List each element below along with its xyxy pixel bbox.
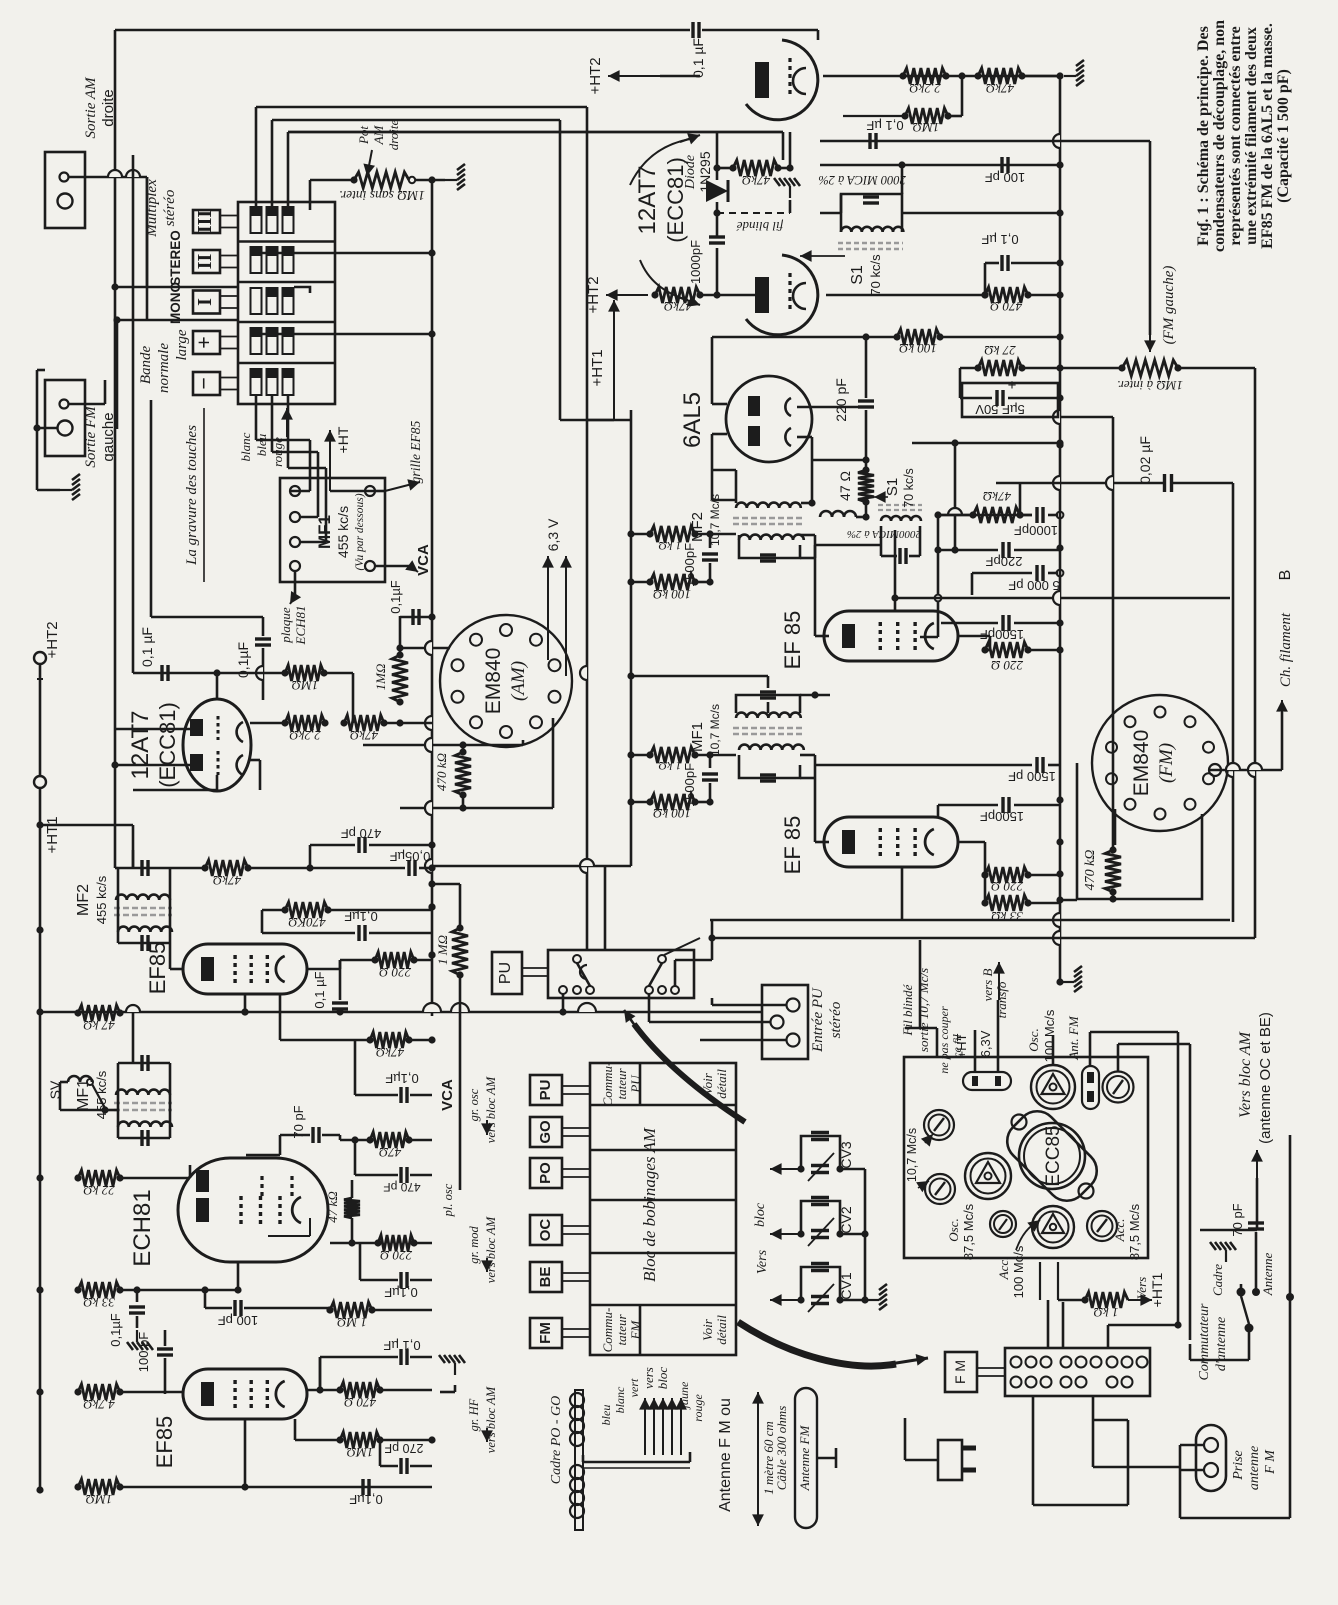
svg-text:MF1: MF1 (315, 515, 334, 549)
terminal Sortie FM small (60, 400, 69, 409)
svg-text:2000 MICA à 2%: 2000 MICA à 2% (818, 173, 906, 187)
button link bloc (562, 1272, 590, 1274)
svg-text:Acc.: Acc. (1112, 1219, 1127, 1243)
ground top right (1022, 75, 1062, 78)
tube 6AL5 plate2 (748, 426, 760, 446)
svg-text:fil blindé: fil blindé (735, 219, 783, 234)
svg-text:tateur: tateur (614, 1314, 629, 1346)
wire 01G (359, 1243, 362, 1280)
svg-text:S1: S1 (884, 478, 901, 496)
capacitor cap F5 (355, 1174, 398, 1177)
svg-text:+HT2: +HT2 (587, 57, 604, 94)
tube 6AL5 cath2 (785, 428, 791, 446)
tube 12AT7 AM grid2 (217, 751, 220, 775)
svg-text:III: III (194, 210, 216, 234)
svg-text:470 kΩ: 470 kΩ (434, 753, 449, 791)
hop x587 (580, 666, 587, 680)
button GO bloc (530, 1117, 562, 1147)
wire y617 (151, 616, 263, 619)
svg-text:+: + (191, 336, 216, 349)
svg-text:1 kΩ: 1 kΩ (1094, 1305, 1119, 1320)
wire row - down1 (255, 396, 258, 440)
svg-text:MF1: MF1 (75, 1079, 92, 1111)
svg-text:6,3V: 6,3V (978, 1030, 993, 1057)
svg-text:0,1µF: 0,1µF (385, 1071, 419, 1086)
svg-text:Bloc de bobinages AM: Bloc de bobinages AM (640, 1127, 659, 1282)
wire vers bloc am stub (1256, 1198, 1259, 1230)
svg-text:(Capacité 1 500 pF): (Capacité 1 500 pF) (1275, 69, 1292, 203)
triode 12AT7a body (746, 40, 818, 120)
MF1 pin3 (290, 537, 300, 547)
wire ef85fm1 left (815, 635, 829, 638)
capacitor mf1 tune (760, 773, 776, 776)
resistor 1k H (1085, 1292, 1128, 1308)
bloc AM divider v (639, 1063, 642, 1105)
wire 220E (1028, 649, 1060, 652)
switch contact row5 slot1 (251, 369, 262, 395)
switch bank row divider (238, 240, 335, 243)
resistor 470 E9 (985, 287, 1028, 303)
wire 1MG (372, 1309, 432, 1312)
svg-text:jaune: jaune (677, 1381, 691, 1410)
svg-text:47kΩ: 47kΩ (983, 489, 1011, 504)
resistor 220 F (375, 952, 414, 968)
button PO bloc (530, 1158, 562, 1188)
svg-text:rouge: rouge (691, 1394, 705, 1422)
wire mf2am frame (117, 868, 120, 943)
svg-text:47kΩ: 47kΩ (376, 1045, 404, 1060)
wire y900 (1060, 899, 1077, 902)
wire row - down3 (287, 396, 290, 468)
svg-text:bloc: bloc (655, 1367, 670, 1390)
svg-text:(FM gauche): (FM gauche) (1161, 266, 1177, 345)
triode 12AT7a grid (788, 58, 791, 96)
box 5uF 50V (962, 383, 1058, 417)
svg-text:PU: PU (537, 1080, 554, 1101)
svg-text:STEREO: STEREO (168, 230, 183, 286)
wire antenne H (1286, 1293, 1294, 1301)
svg-text:0,1 µF: 0,1 µF (690, 38, 706, 78)
wire 47kE (938, 514, 973, 517)
tube 12AT7 AM grid1 (217, 716, 220, 740)
resistor 47k D (344, 715, 384, 731)
svg-text:EM840: EM840 (1130, 730, 1153, 797)
wire row II right (256, 252, 432, 255)
svg-text:47 kΩ: 47 kΩ (83, 1018, 114, 1033)
switch contact row2 slot1 (251, 247, 262, 273)
wire y723 (250, 722, 285, 725)
svg-text:EF 85: EF 85 (780, 611, 805, 670)
terminal Sortie AM large (58, 194, 73, 209)
svg-text:47 Ω: 47 Ω (837, 471, 853, 501)
wire ef85fm1 right (958, 635, 990, 638)
svg-text:470 Ω: 470 Ω (990, 299, 1022, 314)
wire 47kF3 (310, 1039, 370, 1042)
trimmer mc107a (924, 1110, 954, 1140)
capacitor 01uF G2 (136, 1290, 139, 1302)
capacitor 220pF E (865, 337, 868, 398)
wire ef85am out (279, 994, 282, 1040)
wire mf2 sec right (800, 534, 815, 537)
capacitor 100pF right (1000, 157, 1003, 173)
svg-text:0,1µF: 0,1µF (388, 580, 403, 614)
svg-text:5 000 pF: 5 000 pF (1008, 578, 1059, 593)
wire 270G (379, 1440, 382, 1466)
resistor 1M D (285, 665, 324, 681)
svg-text:+HT1: +HT1 (1149, 1272, 1165, 1307)
svg-text:une extrémité filament des deu: une extrémité filament des deux (1243, 27, 1260, 245)
hop rail (1053, 134, 1060, 148)
wire 1kH left (1057, 1262, 1059, 1300)
label +HT2 a (608, 75, 660, 77)
svg-text:Vers bloc AM: Vers bloc AM (1237, 1030, 1254, 1118)
button link bloc (562, 1085, 590, 1087)
svg-text:(FM): (FM) (1156, 743, 1177, 783)
wire 1k E2 (631, 754, 650, 757)
svg-text:2000MICA à 2%: 2000MICA à 2% (847, 528, 921, 540)
button OC bloc (530, 1215, 562, 1245)
connector strip (1005, 1348, 1150, 1396)
wire 100kE3 (712, 336, 897, 339)
triode 12AT7a cathode (793, 68, 806, 94)
svg-text:Ch. filament: Ch. filament (1278, 612, 1294, 687)
svg-text:47kΩ: 47kΩ (742, 173, 770, 188)
button link (220, 215, 238, 217)
svg-text:+HT1: +HT1 (44, 816, 61, 853)
junction y1012 (336, 1008, 343, 1015)
wire row - down2 (271, 396, 274, 452)
wire y598 long (895, 597, 1230, 600)
capacitor 01uF E8 (984, 272, 986, 295)
svg-text:représentés sont connectés ent: représentés sont connectés entre (1227, 26, 1244, 245)
switch bank row divider (238, 281, 335, 284)
svg-text:d'antenne: d'antenne (1214, 1317, 1229, 1371)
tube EM840 AM pins (500, 624, 512, 636)
resistor 1M H vert (452, 928, 468, 975)
wire top bus (115, 29, 690, 32)
wire 6al5 right2 (797, 436, 812, 439)
switch contact row2 slot2 (267, 247, 278, 273)
wire mf2 top left (735, 470, 738, 503)
wire 6al5 right1 (797, 406, 866, 409)
svg-text:1 kΩ: 1 kΩ (658, 539, 681, 553)
switch antenne (1237, 1288, 1246, 1297)
svg-text:Commu-: Commu- (600, 1308, 615, 1353)
svg-text:MONO: MONO (168, 282, 183, 324)
wire ef85am grid down (244, 994, 247, 1012)
wire em pin left (1114, 809, 1117, 845)
switch bank outline (238, 202, 335, 404)
wire 6,3V arrows (547, 556, 549, 660)
coil S1 fm (841, 227, 903, 232)
hop y1012 (126, 1005, 140, 1012)
button &#8722; (193, 372, 220, 395)
variable capacitor CV1 (801, 1267, 840, 1300)
wire y617 cap (400, 616, 432, 619)
switch contact row3 slot1 (251, 288, 262, 314)
resistor 47ohm F (370, 1132, 409, 1148)
wire strip top1 (1039, 1300, 1041, 1348)
capacitor 1500pF E3 (709, 755, 712, 768)
cadre coil2 (570, 1465, 584, 1479)
svg-text:pl. osc: pl. osc (441, 1183, 455, 1217)
svg-text:MF2: MF2 (75, 884, 92, 916)
switch bank row divider (238, 362, 335, 365)
wire bundle base (582, 1455, 585, 1462)
svg-text:2,2kΩ: 2,2kΩ (289, 728, 320, 743)
svg-text:(ECC81): (ECC81) (155, 702, 180, 788)
wire 100pG2 (164, 1330, 167, 1346)
svg-text:1MΩ: 1MΩ (913, 120, 940, 135)
resistor 47k E (973, 507, 1020, 523)
capacitor 470pF F (310, 844, 355, 847)
wire left vertical x115 (114, 30, 117, 287)
capacitor 1000pF fm (709, 235, 725, 238)
resistor 1M a inter (1122, 360, 1178, 376)
svg-text:0,1 µF: 0,1 µF (866, 118, 903, 133)
svg-text:F M: F M (952, 1360, 968, 1384)
svg-text:70 pF: 70 pF (1230, 1203, 1245, 1236)
svg-text:EF85: EF85 (145, 942, 170, 995)
svg-text:1 MΩ: 1 MΩ (337, 1315, 367, 1330)
wire ef85fm1 g (894, 545, 897, 612)
svg-text:CV1: CV1 (838, 1272, 854, 1299)
wire mica loop (841, 194, 902, 213)
paren arc 2 (640, 260, 688, 300)
wire mf1fm top (767, 676, 770, 688)
tube 12AT7 AM cath2 (237, 755, 243, 775)
wire x895 up (894, 530, 897, 545)
wire ef85fm2 bottom (901, 868, 904, 920)
resistor 1k E2 (650, 747, 695, 763)
svg-text:Bande: Bande (138, 346, 154, 385)
capacitor 2000MICA E2 (880, 526, 883, 556)
wire 1M inter left (1060, 367, 1122, 370)
tube EM840 FM pins (1155, 707, 1166, 718)
capacitor 0,1uF top bus (691, 22, 694, 38)
svg-text:PU: PU (497, 962, 514, 984)
svg-text:−: − (191, 377, 216, 390)
svg-text:0,1 µF: 0,1 µF (981, 232, 1018, 247)
wire entree mid (649, 1021, 770, 1024)
wire y825 (40, 824, 133, 827)
wire y76 (823, 75, 1060, 78)
wire y790 bottom tube (133, 789, 217, 792)
wire ef85 cath (989, 636, 992, 650)
button + (193, 331, 220, 354)
transformer MF1 455 box (280, 478, 385, 582)
wire 100k E2 (631, 801, 650, 804)
wire bank III-1 up (255, 107, 258, 207)
wire sortieAM to bank (68, 176, 147, 179)
svg-text:47kΩ: 47kΩ (664, 299, 692, 314)
wire y648 pin (400, 647, 450, 650)
wire sv (60, 1081, 68, 1084)
svg-text:ce fil: ce fil (950, 1034, 964, 1058)
resistor 1k E1 (650, 526, 695, 542)
wire strip bot2 (1092, 1396, 1095, 1420)
power plug (938, 1440, 962, 1480)
wire tuner feed (905, 1027, 937, 1030)
svg-text:ECH81: ECH81 (129, 1189, 156, 1266)
wire mf1am frame (117, 1063, 120, 1138)
capacitor mf1am top (140, 1055, 143, 1071)
resistor 100k E3 (897, 329, 940, 345)
wire ch filament (1209, 769, 1282, 772)
bloc AM divider rows (590, 1104, 736, 1107)
resistor 220 E (985, 642, 1028, 658)
svg-text:1000pF: 1000pF (688, 240, 703, 284)
capacitor 100pF G2 (164, 1340, 166, 1346)
capacitor 01uF F2 (262, 932, 355, 935)
svg-text:Diode: Diode (683, 155, 698, 190)
svg-text:Sortie AM: Sortie AM (83, 76, 99, 138)
svg-text:Cadre: Cadre (1210, 1264, 1225, 1296)
junction 1k E2 (627, 751, 634, 758)
capacitor 005uF F (370, 867, 405, 870)
svg-text:Osc.: Osc. (946, 1218, 961, 1241)
svg-text:470 Ω: 470 Ω (344, 1395, 376, 1410)
wire mf1am top wire (132, 1040, 134, 1063)
ground sortie FM (37, 489, 60, 492)
svg-text:FM: FM (537, 1322, 554, 1344)
svg-text:100 kΩ: 100 kΩ (653, 587, 691, 602)
wire right border (1289, 1135, 1292, 1518)
core MF2 FM (733, 518, 803, 524)
button PU bloc (530, 1075, 562, 1105)
svg-text:bleu: bleu (254, 433, 269, 456)
capacitor mf2am bot (140, 935, 143, 951)
wire 1MH (459, 884, 462, 928)
capacitor 01uF det (868, 133, 871, 149)
trimmer osc875 (965, 1153, 1011, 1199)
hop ch filament (1226, 763, 1240, 770)
ground pot (445, 164, 465, 190)
svg-text:Fɪɠ. 1 : Schéma de principe. D: Fɪɠ. 1 : Schéma de principe. Des (1195, 26, 1212, 246)
svg-text:5µF 50V: 5µF 50V (975, 402, 1025, 417)
wire 1k E1 (631, 533, 650, 536)
wire sw common (1248, 1328, 1251, 1360)
button link bloc (562, 1225, 590, 1227)
svg-text:Commu-: Commu- (600, 1062, 615, 1107)
tube 6AL5 body (726, 376, 812, 462)
svg-text:100 kΩ: 100 kΩ (899, 341, 937, 356)
resistor 100k E2 (650, 794, 695, 810)
wire cap to plateb (716, 248, 719, 295)
wire sortieFM small (68, 403, 105, 406)
resistor 4,7k G (78, 1384, 120, 1400)
capacitor 5000pF E (972, 572, 1032, 575)
svg-text:Vers: Vers (755, 1249, 770, 1274)
PU sw c1 (573, 955, 581, 963)
wire strip bot (1032, 1396, 1035, 1505)
wire 1M inter right (1178, 367, 1255, 370)
svg-text:455 kc/s: 455 kc/s (94, 875, 109, 924)
coil S1-2 (881, 516, 921, 521)
wire 100pG (204, 1290, 207, 1308)
svg-text:0,1µF: 0,1µF (344, 909, 378, 924)
wire 1M right (948, 115, 962, 118)
svg-text:70 kc/s: 70 kc/s (868, 254, 883, 296)
resistor 47k F1 (205, 860, 248, 876)
wire 002 cap (996, 482, 1164, 485)
capacitor mf1am bot (140, 1130, 143, 1146)
svg-text:Ant. FM: Ant. FM (1066, 1015, 1081, 1060)
svg-text:CV2: CV2 (838, 1206, 854, 1233)
wire strip bot3 (1092, 1420, 1095, 1467)
pot AM droite 1M sans inter (354, 172, 409, 188)
switch contact row4 slot2 (267, 328, 278, 354)
triode 12AT7b cathode (793, 283, 806, 309)
wire 220E2 (975, 855, 985, 875)
svg-text:VCA: VCA (415, 544, 432, 576)
MF1 pin2 (290, 512, 300, 522)
svg-text:gr. HF: gr. HF (467, 1398, 481, 1431)
wire ef85fm2 left (815, 841, 829, 844)
core MF1 FM (733, 728, 803, 734)
wire x1060 rail (1059, 76, 1062, 982)
terminal +HT2 left (34, 652, 46, 664)
svg-text:PU: PU (628, 1074, 643, 1094)
wire sw top1 (589, 866, 591, 950)
wire antfm loop (1089, 1032, 1092, 1066)
svg-text:S1: S1 (849, 265, 866, 285)
wire tuner down1 (1039, 1262, 1041, 1300)
button link bloc (562, 1127, 590, 1129)
button link (220, 255, 238, 257)
resistor 1M G2 (340, 1432, 380, 1448)
svg-text:stéréo: stéréo (828, 1001, 844, 1038)
core S1 fm (838, 243, 903, 249)
svg-text:47 kΩ: 47 kΩ (325, 1191, 340, 1222)
wire y132 (288, 131, 783, 134)
switch contact row5 slot3 (283, 369, 294, 395)
capacitor 1500pF E1 (709, 534, 712, 548)
capacitor mf1fm top (736, 695, 800, 713)
resistor 100k E1 (650, 574, 695, 590)
transformer MF2 455 coil2 (118, 927, 172, 932)
button link (220, 295, 238, 297)
wire y417 (1060, 416, 1113, 419)
svg-text:0,02 µF: 0,02 µF (1137, 436, 1153, 484)
svg-text:(Vu par dessous): (Vu par dessous) (354, 493, 366, 570)
wire plate a (817, 30, 820, 40)
svg-text:0,05µF: 0,05µF (390, 849, 431, 864)
wire plate1 left (115, 728, 190, 731)
svg-text:33 kΩ: 33 kΩ (83, 1295, 115, 1310)
svg-text:blanc: blanc (238, 432, 253, 461)
wire strip link (977, 1367, 1005, 1369)
button link (220, 377, 238, 379)
wire left rail x40 (39, 664, 42, 776)
capacitor 1000pF E (938, 514, 1032, 517)
tube EM840 AM body (440, 615, 572, 747)
resistor 47k top (978, 68, 1022, 84)
svg-text:II: II (194, 254, 216, 270)
wire 33kE (1028, 902, 1060, 905)
triode 12AT7b body (746, 255, 818, 335)
svg-text:6AL5: 6AL5 (679, 392, 706, 448)
wire 27kE (960, 367, 978, 370)
wire mf2 top right (801, 502, 812, 505)
wire 470k (462, 745, 465, 752)
svg-text:bleu: bleu (599, 1405, 613, 1426)
wire ef85fm2 right (958, 841, 985, 844)
core MF2 455 (114, 908, 172, 915)
terminal Sortie FM large (58, 421, 73, 436)
svg-text:détail: détail (714, 1315, 729, 1345)
junction y673 (213, 669, 220, 676)
